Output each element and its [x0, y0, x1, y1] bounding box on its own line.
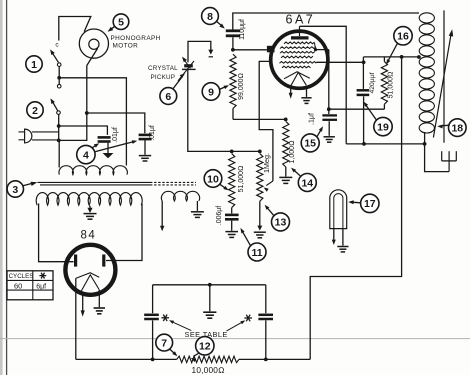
- svg-text:6A7: 6A7: [286, 13, 316, 27]
- svg-text:5: 5: [118, 17, 124, 29]
- antenna lead wire: [443, 10, 445, 142]
- svg-text:CRYSTAL: CRYSTAL: [148, 65, 178, 72]
- svg-text:99,000Ω: 99,000Ω: [238, 73, 245, 100]
- tube V1 (6A7): [271, 31, 328, 88]
- wire: 6A7 return to R13 wiper: [259, 61, 273, 181]
- wire: osc feedback to B-: [310, 57, 401, 360]
- svg-text:3: 3: [12, 184, 18, 196]
- wire: line cord stub to motor break: [59, 17, 91, 41]
- resistor R14 1000 ohm: [284, 118, 288, 122]
- callout 4: [77, 145, 95, 163]
- svg-text:14: 14: [301, 177, 313, 189]
- wire: filament winding left lead: [161, 201, 163, 227]
- svg-text:16: 16: [397, 31, 409, 43]
- svg-text:8: 8: [207, 11, 213, 23]
- resistor R10 51000 ohm: [230, 150, 234, 154]
- svg-text:51,000Ω: 51,000Ω: [238, 166, 245, 193]
- plug jack J1: [441, 151, 443, 161]
- wire: 84 filament to B+ rail: [75, 278, 77, 359]
- svg-text:9: 9: [208, 86, 214, 98]
- svg-text:110μμf: 110μμf: [239, 19, 246, 40]
- callout 14: [298, 174, 316, 192]
- pointer: see table to asterisks: [171, 321, 191, 330]
- svg-text:2: 2: [32, 105, 38, 117]
- capacitor C12 (see table): [265, 285, 267, 313]
- wire: HV secondary right to 84 plate: [106, 204, 142, 261]
- resistor R16 51000 ohm: [383, 57, 385, 62]
- transformer T1 primary coil: [59, 166, 127, 175]
- callout 15: [301, 134, 319, 152]
- svg-text:MOTOR: MOTOR: [113, 43, 139, 50]
- switch S2: [52, 100, 58, 110]
- callout 8: [202, 8, 219, 25]
- svg-text:6μf: 6μf: [36, 283, 46, 290]
- svg-text:4: 4: [83, 149, 89, 161]
- capacitor C7 (see table): [152, 285, 154, 313]
- table: cycles / cap value: [7, 271, 53, 300]
- transformer T1 center tap ground: [89, 206, 91, 209]
- svg-text:17: 17: [364, 198, 376, 210]
- callout 13: [272, 213, 290, 231]
- asterisk (C12): [244, 317, 252, 319]
- wire: S2 pole / plug junctions: [58, 125, 60, 140]
- svg-text:420μμf: 420μμf: [369, 72, 376, 93]
- callout 7: [156, 334, 173, 351]
- callout 16: [394, 27, 412, 45]
- callout 2: [27, 102, 43, 118]
- callout 18: [449, 119, 467, 137]
- wire: screen row: [329, 108, 385, 110]
- transformer T1 secondary coil: [36, 193, 142, 206]
- svg-text:13: 13: [275, 217, 287, 229]
- callout 9: [202, 83, 220, 101]
- svg-text:.006μf: .006μf: [216, 206, 223, 225]
- capacitor C19 420uuf: [362, 57, 364, 89]
- wire: filter box top: [153, 284, 266, 286]
- wire: motor line to bypass cap C4b: [87, 113, 145, 133]
- lamp 17: [330, 190, 347, 229]
- callout 17: [361, 194, 379, 212]
- wire: osc bottom row: [346, 143, 424, 145]
- svg-text:60: 60: [14, 281, 22, 290]
- svg-text:6: 6: [165, 91, 171, 103]
- wire: S1 pole to T1 primary right: [59, 78, 126, 166]
- ground: 84 heater: [98, 290, 100, 307]
- svg-text:CYCLES: CYCLES: [9, 273, 34, 280]
- callout 12: [196, 337, 214, 355]
- wire: pickup top to chassis return: [188, 41, 211, 62]
- phonograph motor M1: [79, 29, 108, 58]
- svg-text:18: 18: [451, 122, 463, 134]
- 6A7 cathode down-arrow lead: [290, 86, 292, 93]
- wire: grid cap over tube to osc coil row: [300, 26, 347, 144]
- potentiometer R13 1 Meg: [258, 150, 262, 154]
- callout 3: [7, 181, 23, 197]
- wire: S2 to bypass cap C4a: [59, 126, 108, 135]
- wire: antenna top rail: [233, 13, 419, 30]
- capacitor C11 .006uf: [231, 208, 233, 214]
- svg-text:.01μf: .01μf: [149, 125, 156, 141]
- callout 5: [113, 14, 129, 30]
- capacitor C4a .01uf: [98, 136, 111, 139]
- transformer T1 core: [38, 181, 151, 183]
- callout 6: [160, 88, 177, 105]
- svg-text:PICKUP: PICKUP: [151, 74, 176, 81]
- oscillator-antenna coil L18: [419, 13, 434, 23]
- wire: coil bottom to plug: [425, 144, 450, 172]
- svg-text:PHONOGRAPH: PHONOGRAPH: [111, 35, 161, 42]
- svg-text:51,000Ω: 51,000Ω: [387, 72, 394, 99]
- wire: plate row to coil tap: [363, 56, 419, 58]
- tuning arrow through coil: [433, 35, 451, 138]
- AC plug: [19, 131, 26, 133]
- svg-text:10: 10: [207, 173, 219, 185]
- wire: plug to motor return: [59, 66, 87, 141]
- asterisk (C7): [161, 317, 169, 319]
- ground: lamp 17: [342, 229, 344, 246]
- svg-text:1,000Ω: 1,000Ω: [289, 141, 296, 164]
- wire: anode grid to C15: [316, 50, 329, 114]
- ground: 6A7: [306, 86, 308, 97]
- svg-text:12: 12: [199, 341, 211, 353]
- callout 19: [374, 117, 392, 135]
- callout 11: [248, 243, 266, 261]
- wire: 6A7 grid4 to osc section: [316, 61, 363, 63]
- capacitor C8 110uuf: [226, 29, 240, 32]
- svg-text:7: 7: [161, 337, 167, 349]
- ground: filter center: [209, 285, 211, 312]
- wire: HV secondary left to 84 plate: [39, 204, 74, 262]
- wire: signal grid: [233, 49, 267, 51]
- svg-text:19: 19: [377, 121, 389, 133]
- wire: pickup bottom to volume control: [188, 69, 260, 152]
- callout 10: [204, 170, 222, 188]
- wire: rail resistor to C12: [239, 358, 310, 360]
- svg-text:.1μf: .1μf: [308, 113, 316, 125]
- svg-text:15: 15: [304, 138, 316, 150]
- transformer T1 filament winding: [161, 191, 199, 201]
- ground: filament winding: [196, 201, 198, 211]
- wire: cathode bias row: [233, 118, 286, 120]
- resistor R12 10000 ohm: [177, 356, 239, 362]
- capacitor C15 .1uf: [322, 114, 337, 116]
- resistor R9 99000 ohm: [230, 54, 236, 108]
- svg-text:84: 84: [81, 230, 97, 242]
- svg-text:11: 11: [251, 247, 262, 259]
- wire: B- bottom rail: [76, 358, 177, 360]
- svg-text:.01μf: .01μf: [112, 127, 119, 143]
- 84 cathode down-arrow lead: [82, 292, 84, 311]
- svg-text:1: 1: [31, 59, 37, 71]
- crystal pickup element: [184, 64, 193, 67]
- svg-text:10,000Ω: 10,000Ω: [192, 365, 226, 375]
- tube V2 (84): [65, 245, 115, 295]
- capacitor C4b .01uf: [139, 134, 152, 137]
- svg-text:1Meg.: 1Meg.: [262, 153, 271, 173]
- callout 1: [26, 56, 42, 72]
